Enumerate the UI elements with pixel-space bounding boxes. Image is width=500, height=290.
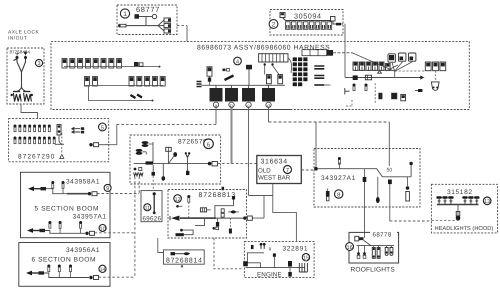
- right connector stack: [164, 18, 171, 22]
- callout 14: [99, 265, 106, 272]
- svg-text:315182: 315182: [447, 189, 473, 196]
- svg-text:AXLE LOCK: AXLE LOCK: [8, 30, 39, 36]
- bottom connector right (hatched W): [23, 91, 30, 93]
- node b: [229, 102, 234, 107]
- small plug bottom-left: [327, 189, 329, 192]
- dark plug below wire: [217, 218, 219, 222]
- svg-text:87268813: 87268813: [199, 192, 237, 199]
- callout 8: [335, 190, 343, 198]
- output connector: [89, 143, 92, 146]
- block connector row1 end: [57, 125, 61, 136]
- svg-text:ENGINE: ENGINE: [257, 272, 282, 279]
- harness left row A connectors: [62, 59, 122, 69]
- wire: box7 to box8 node: [301, 169, 313, 171]
- diagonal branch w/ splice: [168, 156, 174, 164]
- stacked pair rects: [221, 209, 224, 213]
- inline oval splice: [228, 211, 239, 213]
- wire: branch down to box8 left node: [315, 122, 317, 168]
- box 3 border: [7, 48, 44, 104]
- svg-text:69626: 69626: [143, 216, 162, 223]
- svg-text:5: 5: [101, 125, 104, 131]
- wire fan to right connectors: [158, 21, 164, 31]
- wire branch up: [145, 17, 147, 26]
- callout 16: [346, 243, 354, 251]
- ring terminal: [152, 14, 156, 18]
- drop plugs: [47, 265, 50, 272]
- plug with dashed lead: [187, 195, 190, 202]
- svg-text:2: 2: [272, 22, 276, 29]
- small pair: [213, 227, 216, 230]
- harness row B left pair: [85, 77, 90, 87]
- drop plugs: [48, 221, 51, 228]
- callout 13: [483, 197, 491, 205]
- Z branch up: [215, 200, 234, 219]
- svg-text:6 SECTION BOOM: 6 SECTION BOOM: [32, 257, 97, 264]
- drop to dark plug (x163): [162, 164, 164, 177]
- svg-text:50: 50: [387, 168, 393, 174]
- right section: row of 6 connectors: [353, 62, 390, 70]
- harness 9: arrow terminal: [28, 186, 34, 191]
- right terminal: [331, 17, 336, 22]
- slanted splice on bus: [225, 76, 234, 81]
- fuse block grid: [293, 57, 308, 86]
- wire c: down to junction row: [248, 108, 250, 196]
- plug at x274: [273, 257, 275, 268]
- step wire: [247, 253, 264, 268]
- left stacked terminals: [142, 141, 149, 144]
- harness 10 wire: [45, 231, 85, 234]
- connector (left terminal): [119, 24, 126, 27]
- box 87268814 border: [164, 250, 205, 264]
- wire a: down then dashed left to box5 riser: [215, 108, 217, 125]
- right step plug: [407, 177, 409, 186]
- bottom-left L wire: [346, 100, 352, 106]
- wire: 814 box to box12: [158, 238, 164, 253]
- node c: [246, 102, 251, 107]
- Y stem down to plug: [187, 158, 189, 171]
- hanging plug below bend: [377, 177, 379, 198]
- output 14: [89, 276, 92, 279]
- diagonal lead: [364, 240, 372, 245]
- plug below wire: [289, 268, 291, 272]
- plug above wire at x290: [288, 261, 292, 267]
- svg-text:ROOFLIGHTS: ROOFLIGHTS: [351, 267, 396, 274]
- small drops: [359, 246, 365, 253]
- terminal rows right of fuse block: [314, 66, 324, 69]
- callout 12: [174, 195, 182, 203]
- jumper wire: [153, 192, 156, 195]
- 4 dark relay blocks: [210, 88, 223, 102]
- top-right connector bar: [302, 50, 327, 56]
- box 15 border: [244, 241, 314, 277]
- wire: box2 to harness box: [341, 23, 345, 25]
- svg-text:7: 7: [286, 168, 289, 174]
- svg-text:343957A1: 343957A1: [73, 214, 107, 221]
- small connector pair on row A: [134, 62, 139, 66]
- svg-text:10: 10: [100, 226, 106, 232]
- box 4 border: [51, 42, 469, 110]
- box 13 border: [431, 184, 497, 233]
- callout 3: [35, 59, 42, 66]
- output 9: [88, 192, 91, 195]
- left terminal of bus: [353, 75, 358, 80]
- connector 8-shape on bus: [207, 67, 212, 77]
- connector pair below fuse comb: [267, 75, 272, 84]
- callout 4: [234, 57, 242, 65]
- svg-text:87268814: 87268814: [166, 258, 203, 265]
- bottom-left cluster: [134, 168, 137, 171]
- output 10: [85, 232, 88, 235]
- box 11 border: [141, 191, 162, 222]
- comb terminal right: [299, 263, 307, 272]
- left plug: [243, 261, 248, 266]
- bottom connector left (hatched W): [13, 91, 20, 93]
- svg-text:305094: 305094: [294, 12, 322, 21]
- CD connector: [166, 147, 172, 151]
- triangle clip: [378, 71, 382, 74]
- small dark connectors lower: [378, 93, 382, 99]
- drop plugs: [51, 181, 54, 188]
- plug up at x339: [338, 163, 340, 169]
- relay block stems: [216, 85, 269, 88]
- wire: box8 to headlights: [389, 184, 391, 221]
- top plugs: [251, 245, 254, 249]
- boom box 14 border: [19, 243, 110, 287]
- main wire: [134, 163, 209, 165]
- center bus wire: [202, 84, 286, 86]
- row B baseline wire: [85, 85, 163, 87]
- callout 1: [120, 9, 129, 18]
- harness 10: arrow terminal: [27, 228, 33, 233]
- small marks: [223, 69, 226, 72]
- svg-text:87268434: 87268434: [10, 50, 31, 55]
- dashed drop right: [229, 218, 231, 228]
- bar wire: [437, 204, 479, 206]
- top tick mark: [222, 187, 225, 190]
- junction row under box7: [249, 184, 297, 242]
- svg-text:343956A1: 343956A1: [66, 247, 100, 254]
- bell connector drop: [435, 71, 437, 82]
- svg-text:9: 9: [106, 186, 109, 192]
- wire: box3 down to box5: [21, 104, 38, 119]
- dashed feed inside box13: [431, 220, 456, 222]
- main wire w/ big arrow terminal: [180, 217, 216, 219]
- harness 14 wire: [44, 273, 89, 278]
- upper trio connectors: [388, 54, 395, 62]
- dashed drop: [374, 83, 376, 104]
- node d: [266, 102, 271, 107]
- left riser: [152, 142, 154, 164]
- wire: box1 to harness box: [177, 25, 187, 27]
- main wire: [318, 169, 411, 177]
- svg-text:11: 11: [144, 206, 150, 212]
- callout 10: [99, 225, 106, 232]
- callout 7: [284, 166, 292, 174]
- box 8 border: [314, 149, 420, 208]
- wire: box12 to engine box: [214, 238, 243, 269]
- wire to bus: [283, 18, 332, 21]
- inline splice marks: [131, 95, 143, 99]
- curved lead from comb: [288, 58, 292, 73]
- wire: box8 to rooflights: [364, 182, 366, 238]
- bus riser A: [134, 177, 136, 278]
- Y wire: [17, 59, 26, 87]
- fuse panel leads: [264, 63, 266, 65]
- lower-left small connectors: [353, 84, 356, 91]
- fuse comb panel: [259, 54, 288, 62]
- svg-text:8: 8: [337, 191, 340, 198]
- fuse row 2: [14, 137, 56, 144]
- box 16 border: [349, 232, 399, 263]
- comb connectors under bus: [286, 22, 332, 30]
- plug top-left: [355, 236, 359, 241]
- box 2 border: [270, 10, 343, 36]
- box 12 border: [168, 190, 247, 239]
- output node right edge: [243, 216, 246, 219]
- svg-text:14: 14: [99, 267, 105, 273]
- center: terminal stack at bus left end: [197, 82, 202, 87]
- dashed drop with triangle: [61, 133, 63, 154]
- diagonals to junction: [386, 62, 413, 72]
- label 68778: [370, 230, 397, 237]
- wire top: [139, 16, 152, 18]
- dark plug under 50: [388, 180, 392, 185]
- wire main: [126, 25, 158, 27]
- connector top-left: [280, 13, 285, 18]
- wire: box6 to box7: [218, 163, 257, 165]
- svg-text:16: 16: [347, 245, 353, 251]
- boom box border: [21, 172, 111, 237]
- svg-text:87267290: 87267290: [18, 154, 55, 161]
- svg-text:5 SECTION BOOM: 5 SECTION BOOM: [35, 206, 100, 213]
- output node: [208, 162, 212, 166]
- callout 2: [269, 20, 278, 29]
- top connectors: [16, 56, 19, 59]
- box 5 border: [9, 119, 109, 162]
- svg-text:3: 3: [37, 61, 40, 67]
- tall plugs center: [374, 246, 379, 248]
- box 1 border: [117, 5, 177, 35]
- svg-text:1: 1: [123, 11, 127, 18]
- svg-text:343927A1: 343927A1: [321, 175, 356, 182]
- callout 5: [99, 123, 107, 131]
- split arcs to bottom connectors: [17, 87, 27, 92]
- connector top-left: [135, 14, 140, 19]
- fuse row 1: [14, 125, 51, 132]
- wire: box6 to box11: [152, 165, 154, 176]
- svg-text:322891: 322891: [283, 246, 309, 253]
- wire b: thick gray down to old west bar line: [231, 108, 233, 164]
- wire: boom14 to bus: [99, 276, 135, 278]
- step below wire: [195, 218, 205, 225]
- row baseline: [354, 70, 395, 72]
- wire d: down, dashed right, into box8: [268, 108, 270, 123]
- wire from block connector: [55, 135, 64, 144]
- hatch connector: [200, 208, 206, 212]
- arrow terminals right: [72, 127, 81, 130]
- bus: [357, 245, 394, 247]
- harness 9 wire: [46, 189, 88, 194]
- D connector on bus: [365, 75, 371, 80]
- T connector: [246, 65, 252, 70]
- callout 15: [302, 254, 309, 261]
- row A baseline wire: [64, 66, 159, 68]
- CD stem: [167, 151, 169, 163]
- svg-text:WEST BAR: WEST BAR: [258, 175, 291, 182]
- thick splice on wire: [146, 161, 154, 164]
- callout 6: [204, 139, 214, 149]
- wire from bar to right section: [333, 52, 352, 54]
- dot below: [181, 265, 183, 267]
- svg-text:15: 15: [303, 256, 309, 262]
- plug down at x365: [364, 169, 366, 177]
- svg-text:68778: 68778: [373, 232, 392, 239]
- svg-text:OLD: OLD: [258, 168, 271, 175]
- wire: boom10 to bus: [95, 232, 135, 234]
- small connector below-right: [415, 90, 418, 92]
- lower bus: [351, 77, 419, 79]
- bulb sockets left group: [436, 196, 479, 204]
- dashed jumper to right trio: [395, 70, 426, 72]
- node a: [213, 102, 218, 107]
- bus riser B: [138, 177, 140, 194]
- main wire: [246, 267, 305, 269]
- svg-text:343958A1: 343958A1: [66, 179, 100, 186]
- svg-text:HEADLIGHTS (HOOD): HEADLIGHTS (HOOD): [435, 225, 494, 232]
- svg-text:316634: 316634: [261, 159, 288, 166]
- row B right connector group: [129, 77, 165, 87]
- left node: [314, 167, 318, 171]
- harness 14 arrow terminal: [26, 271, 32, 276]
- box 7 border: [257, 156, 302, 184]
- plugs right: [387, 246, 392, 248]
- callout 9: [104, 184, 111, 191]
- callout 11: [144, 204, 151, 211]
- right riser: [409, 162, 412, 165]
- junction drop to bus: [394, 71, 396, 77]
- svg-text:68777: 68777: [136, 5, 160, 14]
- box 6 border: [130, 135, 221, 184]
- bottom-left loop: [180, 229, 183, 232]
- svg-text:12: 12: [175, 197, 181, 203]
- svg-text:13: 13: [484, 199, 490, 205]
- svg-text:IN/OUT: IN/OUT: [8, 36, 27, 42]
- wire: boom9 to bus: [97, 193, 139, 195]
- right trio connectors: [425, 62, 431, 71]
- jumper inside: [171, 252, 176, 255]
- branch wire below: [88, 86, 152, 101]
- Y connector: [186, 154, 189, 158]
- solid segment of box4 bottom border: [210, 109, 292, 111]
- tiny splice left: [176, 205, 179, 208]
- center drop plug: [457, 205, 459, 212]
